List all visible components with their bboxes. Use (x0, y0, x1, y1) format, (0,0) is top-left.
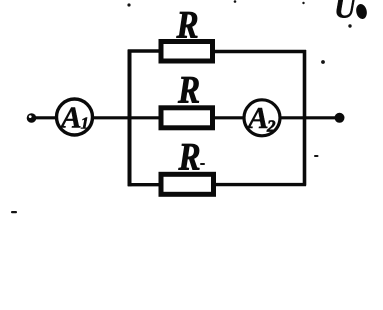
svg-text:U: U (334, 0, 357, 25)
junction: left bus bar (128, 50, 132, 187)
wire (280, 116, 336, 119)
wire (35, 116, 58, 119)
node: left terminal (27, 113, 37, 123)
svg-text:A: A (246, 100, 269, 135)
svg-text:1: 1 (81, 114, 90, 133)
wire (93, 116, 160, 119)
svg-text:R: R (178, 135, 201, 178)
label U0 (source voltage) (334, 0, 368, 25)
resistor R top (161, 42, 213, 62)
svg-text:2: 2 (266, 117, 276, 136)
junction: right bus bar (303, 50, 307, 186)
wire (128, 49, 160, 52)
wire (214, 50, 306, 53)
resistor R middle (161, 108, 213, 128)
ammeter A1 (57, 99, 93, 135)
node: right terminal (335, 113, 345, 123)
ammeter A2 (244, 100, 280, 136)
svg-text:A: A (59, 100, 82, 135)
wire (128, 183, 160, 186)
wire (215, 183, 306, 186)
wire (214, 116, 245, 119)
resistor R bottom (161, 174, 214, 194)
svg-text:R: R (177, 68, 200, 111)
